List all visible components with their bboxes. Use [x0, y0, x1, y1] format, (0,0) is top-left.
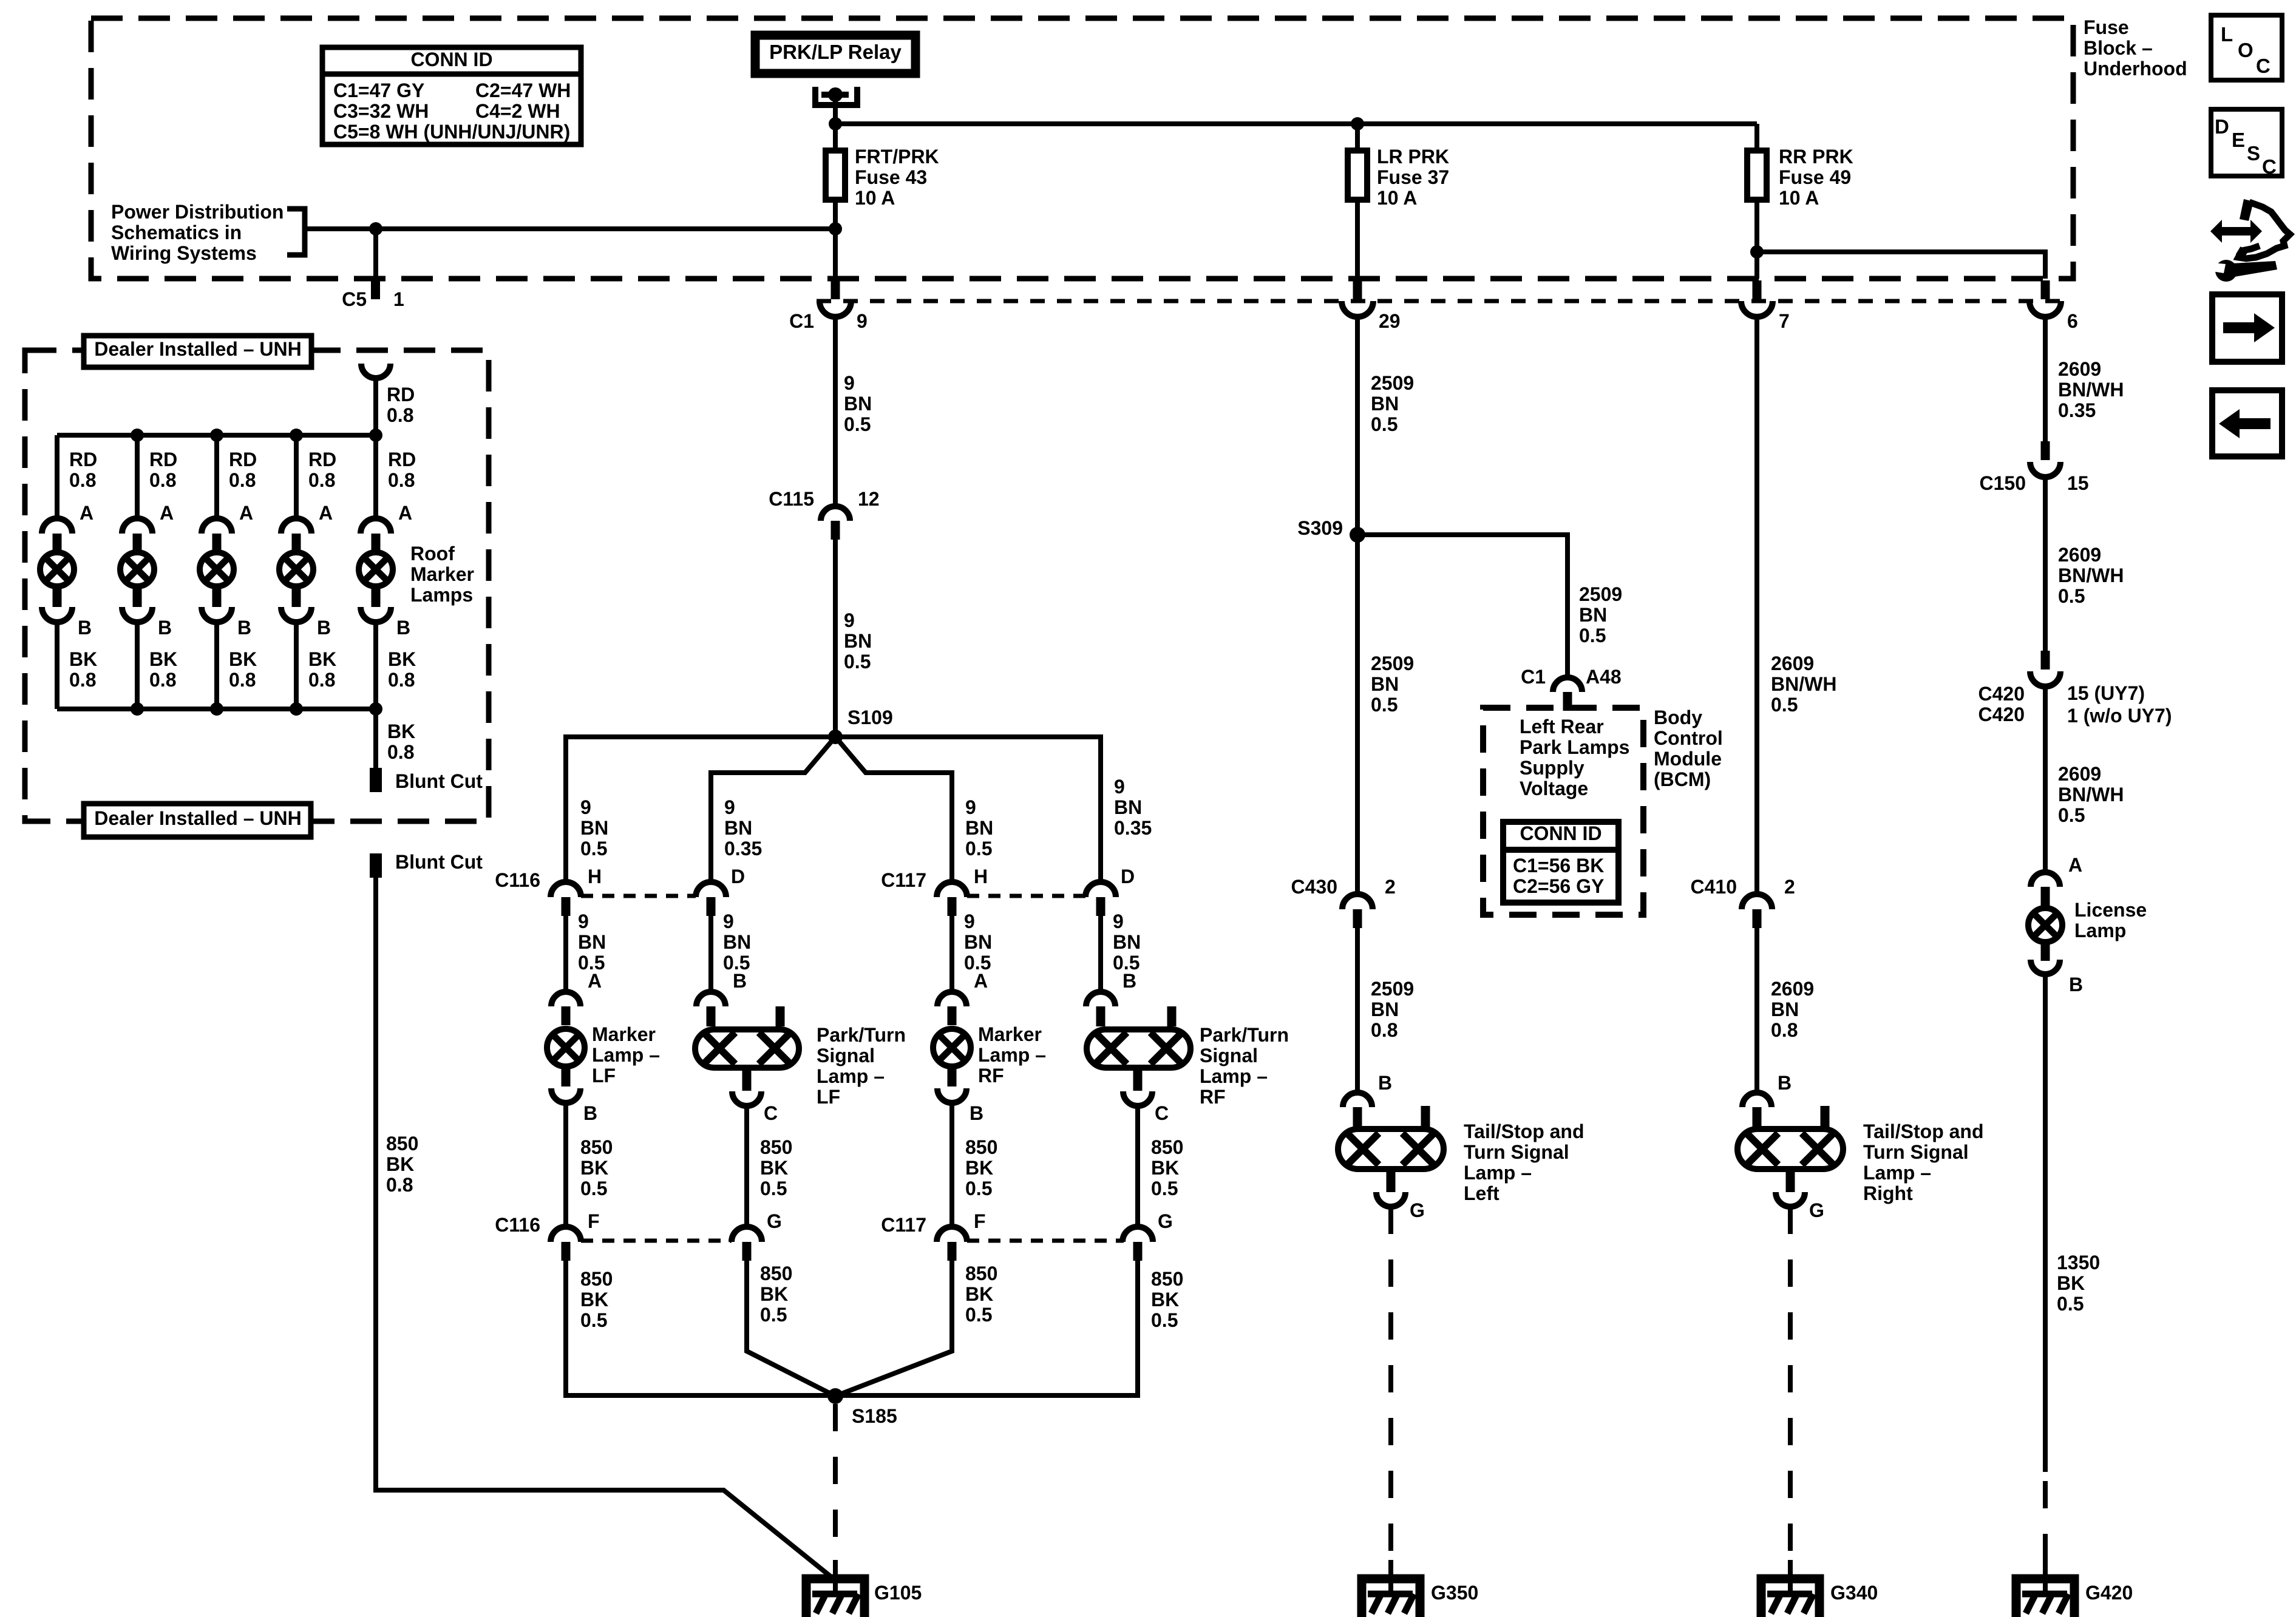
ground G350: [1362, 1560, 1478, 1617]
connector C1 pin 9: [789, 280, 868, 332]
connector C410 pin 2: [1691, 876, 1795, 928]
connector C116 pin F: [495, 1210, 599, 1261]
connector roof lamp 1 pin A: [42, 518, 72, 552]
node C5 tap: [369, 222, 382, 236]
connector C117 pin F: [881, 1210, 985, 1261]
label RD 0.8: [308, 449, 336, 491]
node roof bottom bus junction: [290, 702, 303, 716]
connector park/turn LF pin B: [696, 992, 725, 1025]
connector link C116 F-G (dashed): [581, 1239, 732, 1243]
label pin A: [398, 502, 412, 524]
node roof bus junction: [131, 429, 144, 442]
lamp Park/Turn Signal Lamp - LF: [695, 1006, 799, 1091]
svg-text:RD0.8: RD0.8: [229, 449, 257, 491]
module BCM dashed box: [1483, 708, 1643, 915]
splice S309: [1297, 517, 1365, 543]
connector roof lamp 1 pin B: [42, 607, 72, 622]
svg-text:C117: C117: [881, 1214, 926, 1236]
wire 9 BN 0.5 to lamp pin B: [708, 916, 713, 992]
label Marker Lamp - RF: [978, 1023, 1046, 1086]
svg-text:BK0.8: BK0.8: [229, 648, 257, 691]
svg-text:RD0.8: RD0.8: [388, 449, 416, 491]
connector C5 pin 1: [342, 280, 404, 310]
wire license ground (dashed): [2043, 1481, 2048, 1563]
lamp roof marker 1: [40, 552, 74, 607]
connector C116 pin H: [495, 866, 602, 916]
label 850 BK 0.5: [1151, 1136, 1183, 1199]
label BK 0.8: [388, 648, 416, 691]
lamp Marker Lamp - LF: [547, 1029, 585, 1086]
connector roof lamp 2 pin A: [122, 518, 152, 552]
lamp License Lamp: [2028, 908, 2062, 961]
svg-text:C410: C410: [1691, 876, 1737, 898]
svg-text:G420: G420: [2085, 1582, 2133, 1604]
svg-text:A: A: [2068, 854, 2082, 876]
svg-text:B: B: [1123, 970, 1136, 992]
node RR branch junction: [1750, 245, 1764, 259]
label 9 BN 0.5: [723, 910, 751, 974]
wire roof lamp top bus: [57, 433, 376, 438]
svg-text:S185: S185: [852, 1405, 897, 1427]
label Power Distribution: [111, 201, 305, 264]
wire 2609 BN/WH 0.35 (pin6 to C150): [2043, 317, 2048, 443]
connector C116 pin D: [696, 866, 745, 916]
wire BK 0.8 roof lamp 4: [294, 622, 299, 709]
svg-text:B: B: [583, 1102, 597, 1124]
wire 850 BK 0.5 (park LF): [744, 1106, 749, 1227]
label 2509 BN 0.5: [1579, 583, 1622, 646]
connector tail lamp left pin G: [1376, 1192, 1425, 1221]
svg-text:2: 2: [1784, 876, 1795, 898]
label 9 BN 0.5: [578, 910, 606, 974]
node relay bus junction: [829, 117, 842, 131]
icon adjust (arrows and wrench): [2210, 199, 2290, 282]
svg-text:H: H: [588, 866, 602, 887]
connector tail lamp left pin B: [1343, 1093, 1372, 1126]
label 9 BN 0.5: [844, 372, 872, 435]
svg-text:B: B: [1778, 1072, 1792, 1094]
svg-text:CONN ID: CONN ID: [410, 49, 492, 70]
svg-text:A: A: [160, 502, 174, 524]
connector C117 pin D: [1085, 866, 1135, 916]
wire BK 0.8 roof lamp 2: [135, 622, 140, 709]
svg-text:C420C420: C420C420: [1978, 683, 2025, 725]
connector tail lamp right pin B: [1742, 1093, 1771, 1126]
svg-text:B: B: [1378, 1072, 1392, 1094]
svg-text:RD0.8: RD0.8: [69, 449, 97, 491]
connector marker LF pin B: [551, 1088, 597, 1124]
label 850 BK 0.5: [965, 1136, 997, 1199]
wire 9 BN 0.5 to lamp pin A: [949, 916, 954, 992]
connector license lamp pin B: [2031, 960, 2083, 995]
svg-text:RD0.8: RD0.8: [149, 449, 177, 491]
wire BK 0.8 roof lamp 1: [55, 622, 59, 709]
svg-text:L: L: [2221, 23, 2233, 46]
connector park/turn LF pin C: [732, 1091, 778, 1124]
label 2509 BN 0.8: [1371, 978, 1414, 1041]
label pin B: [317, 617, 331, 639]
label 2609 BN/WH 0.5: [2058, 763, 2124, 826]
svg-text:D: D: [1121, 866, 1135, 887]
label BK 0.8: [149, 648, 177, 691]
svg-text:C: C: [2262, 155, 2277, 178]
wire RD 0.8 roof lamp 4: [294, 435, 299, 519]
wire RR PRK drop: [1754, 124, 1759, 147]
connector roof lamp 4 pin B: [281, 607, 311, 622]
label box Dealer Installed - UNH (bottom): [84, 804, 311, 837]
svg-text:C115: C115: [769, 488, 814, 510]
svg-text:G340: G340: [1830, 1582, 1878, 1604]
label 9 BN 0.35: [1114, 776, 1152, 839]
label 850 BK 0.8: [386, 1133, 418, 1196]
lamp roof marker 2: [120, 552, 154, 607]
label pin B: [78, 617, 92, 639]
label 2609 BN/WH 0.5: [1771, 653, 1836, 716]
svg-text:Dealer Installed – UNH: Dealer Installed – UNH: [94, 338, 301, 360]
connector C430 pin 2: [1291, 876, 1396, 928]
connector park/turn RF pin C: [1123, 1091, 1169, 1124]
label pin A: [2068, 854, 2082, 876]
label 9 BN 0.5: [964, 910, 992, 974]
label 850 BK 0.5: [965, 1263, 997, 1326]
wire S109 to C117-D: [835, 737, 1101, 882]
wire S109 to C116-D: [711, 737, 835, 882]
icon DESC box: [2211, 109, 2282, 178]
label pin A: [588, 970, 602, 992]
wire 850 BK 0.5 (C117-G to S185): [835, 1261, 1138, 1395]
label Left Rear Park Lamps Supply Voltage: [1520, 716, 1629, 799]
svg-text:RD0.8: RD0.8: [308, 449, 336, 491]
label BK 0.8: [308, 648, 336, 691]
label 850 BK 0.5: [760, 1136, 792, 1199]
svg-text:G: G: [1158, 1210, 1173, 1232]
fuse FRT/PRK Fuse 43: [826, 95, 845, 279]
label 1350 BK 0.5: [2057, 1252, 2100, 1315]
connector tail lamp right pin G: [1776, 1192, 1824, 1221]
wire power distribution feed: [305, 226, 835, 231]
svg-text:C1: C1: [1521, 666, 1546, 688]
connector BCM C1 pin A48: [1521, 666, 1622, 711]
wire RD 0.8 roof lamp 2: [135, 435, 140, 519]
lamp roof marker 3: [200, 552, 234, 607]
ground G340: [1761, 1560, 1878, 1617]
wire 850 BK 0.5 (marker LF): [563, 1103, 568, 1227]
wire RD 0.8 roof lamp 3: [214, 435, 219, 519]
node roof bottom bus junction: [369, 702, 382, 716]
label BK 0.8: [229, 648, 257, 691]
wire 9 BN 0.5 to lamp pin B: [1098, 916, 1103, 992]
svg-text:A48: A48: [1586, 666, 1622, 688]
svg-text:1: 1: [393, 288, 404, 310]
svg-text:PRK/LP Relay: PRK/LP Relay: [769, 41, 902, 63]
node roof bus junction: [369, 429, 382, 442]
svg-text:B: B: [396, 617, 410, 639]
label 2609 BN 0.8: [1771, 978, 1814, 1041]
label Roof Marker Lamps: [410, 543, 474, 606]
label pin A: [319, 502, 333, 524]
wire 2509 BN 0.5 (pin29 to S309): [1355, 317, 1360, 535]
label pin A: [239, 502, 253, 524]
svg-text:C117: C117: [881, 869, 926, 891]
connector license lamp pin A: [2031, 872, 2060, 906]
wire 850 BK 0.8 blunt cut to G105: [376, 878, 830, 1576]
wire 1350 BK 0.5: [2043, 974, 2048, 1472]
fuse LR PRK Fuse 37: [1348, 124, 1367, 279]
icon previous arrow box: [2212, 390, 2282, 456]
node roof bus junction: [290, 429, 303, 442]
svg-text:S309: S309: [1297, 517, 1343, 539]
lamp Tail/Stop and Turn Signal Lamp - Left: [1338, 1106, 1444, 1192]
lamp roof marker 5: [359, 552, 393, 607]
svg-text:7: 7: [1779, 310, 1790, 332]
svg-text:D: D: [2215, 115, 2229, 138]
label 9 BN 0.5: [580, 796, 608, 859]
wire 2609 BN/WH 0.5 (pin7 to C410): [1754, 317, 1759, 894]
connector link C117 H-D (dashed): [967, 894, 1085, 898]
label RD 0.8: [388, 449, 416, 491]
connector C117 pin G: [1123, 1210, 1173, 1261]
label 9 BN 0.35: [724, 796, 762, 859]
svg-text:A: A: [398, 502, 412, 524]
connector link C116 H-D (dashed): [581, 894, 696, 898]
wire BK 0.8 to blunt cut: [373, 709, 378, 768]
svg-text:Blunt Cut: Blunt Cut: [395, 851, 483, 873]
connector roof lamp 5 pin A: [361, 518, 391, 552]
svg-text:Blunt Cut: Blunt Cut: [395, 770, 483, 792]
blunt cut (dealer box): [370, 768, 483, 792]
svg-text:G350: G350: [1431, 1582, 1478, 1604]
wire tail left ground (dashed): [1388, 1207, 1393, 1563]
wire S185 to G105 (dashed): [833, 1404, 838, 1563]
fuse RR PRK Fuse 49: [1747, 151, 1767, 279]
svg-text:CONN ID: CONN ID: [1520, 822, 1601, 844]
svg-text:B: B: [317, 617, 331, 639]
label 850 BK 0.5: [1151, 1268, 1183, 1331]
svg-text:1 (w/o UY7): 1 (w/o UY7): [2067, 705, 2172, 727]
label BK 0.8: [387, 720, 415, 763]
ground G105: [806, 1560, 922, 1617]
node roof bottom bus junction: [210, 702, 223, 716]
wire roof lamp bottom bus: [57, 707, 376, 711]
svg-text:B: B: [2069, 974, 2083, 995]
dealer installed dashed box: [25, 350, 489, 821]
svg-text:F: F: [974, 1210, 986, 1232]
svg-text:C1: C1: [789, 310, 814, 332]
connector C116 pin G: [732, 1210, 782, 1261]
svg-text:BK0.8: BK0.8: [69, 648, 97, 691]
svg-text:2: 2: [1385, 876, 1396, 898]
wire RR branch to pin 6: [1757, 252, 2045, 279]
wire tail right ground (dashed): [1788, 1207, 1793, 1563]
wire 850 BK 0.5 (marker RF): [949, 1103, 954, 1227]
svg-text:6: 6: [2067, 310, 2078, 332]
icon LOC box: [2211, 15, 2282, 80]
connector line C1 (dotted): [817, 299, 2071, 303]
svg-text:F: F: [588, 1210, 600, 1232]
svg-text:C150: C150: [1980, 472, 2026, 494]
svg-text:C: C: [1155, 1102, 1169, 1124]
lamp roof marker 4: [279, 552, 313, 607]
wire 2609 BN/WH 0.5 (C150 to C420): [2043, 477, 2048, 653]
svg-text:B: B: [237, 617, 251, 639]
label Marker Lamp - LF: [592, 1023, 660, 1086]
ground G420: [2016, 1560, 2133, 1617]
label 850 BK 0.5: [760, 1263, 792, 1326]
svg-text:12: 12: [858, 488, 880, 510]
relay PRK/LP contact symbol: [815, 87, 857, 124]
svg-text:S: S: [2247, 142, 2260, 164]
svg-text:C5: C5: [342, 288, 367, 310]
label RR PRK Fuse 49: [1779, 146, 1853, 209]
wire 2609 BN 0.8 (C410 to lamp): [1754, 928, 1759, 1093]
wire S109 to C117-H: [835, 737, 952, 882]
label 9 BN 0.5: [844, 609, 872, 673]
label pin B: [1778, 1072, 1792, 1094]
blunt cut (harness): [370, 851, 483, 878]
label 2509 BN 0.5: [1371, 653, 1414, 716]
label pin B: [396, 617, 410, 639]
connector park/turn RF pin B: [1086, 992, 1115, 1025]
label Park/Turn Signal Lamp - LF: [817, 1024, 906, 1108]
connector dealer feed cup: [361, 364, 390, 378]
wire C5 drop: [373, 229, 378, 279]
label 850 BK 0.5: [580, 1136, 613, 1199]
connector roof lamp 3 pin A: [202, 518, 232, 552]
svg-text:G: G: [1809, 1199, 1824, 1221]
label pin A: [160, 502, 174, 524]
svg-text:B: B: [78, 617, 92, 639]
wire dealer feed: [373, 378, 378, 435]
connector C117 pin H: [881, 866, 988, 916]
fuse block underhood dashed box: [91, 18, 2073, 279]
connector roof lamp 5 pin B: [361, 607, 391, 622]
wire 9 BN 0.5 (C1-9 to C115): [833, 317, 838, 506]
label pin B: [1123, 970, 1136, 992]
label pin B: [1378, 1072, 1392, 1094]
wire 9 BN 0.5 to lamp pin A: [563, 916, 568, 992]
label 2609 BN/WH 0.5: [2058, 544, 2124, 607]
lamp Tail/Stop and Turn Signal Lamp - Right: [1737, 1106, 1843, 1192]
svg-text:BK0.8: BK0.8: [387, 720, 415, 763]
CONN ID table (BCM): [1503, 822, 1618, 903]
wire 2509 BN 0.5 (S309 to C430): [1355, 542, 1360, 894]
label box Dealer Installed - UNH (top): [84, 336, 311, 367]
connector roof lamp 4 pin A: [281, 518, 311, 552]
svg-text:E: E: [2232, 129, 2245, 151]
lamp Marker Lamp - RF: [933, 1029, 971, 1086]
connector roof lamp 2 pin B: [122, 607, 152, 622]
splice S109: [828, 707, 893, 744]
node roof bus junction: [210, 429, 223, 442]
label RD 0.8 (feed): [387, 384, 415, 426]
svg-text:O: O: [2238, 39, 2254, 61]
connector marker LF pin A: [551, 992, 580, 1025]
label 2609 BN/WH 0.35: [2058, 358, 2124, 421]
svg-text:S109: S109: [847, 707, 893, 728]
svg-text:A: A: [239, 502, 253, 524]
label FRT/PRK Fuse 43: [855, 146, 939, 209]
svg-text:C: C: [764, 1102, 778, 1124]
wire S109 to C116-H: [566, 737, 835, 882]
label RD 0.8: [69, 449, 97, 491]
label RD 0.8: [149, 449, 177, 491]
svg-text:H: H: [974, 866, 988, 887]
wire RD 0.8 roof lamp 5: [373, 435, 378, 519]
relay PRK/LP label box: [755, 35, 915, 73]
svg-text:B: B: [733, 970, 747, 992]
label Tail/Stop and Turn Signal Lamp - Right: [1863, 1120, 1984, 1204]
svg-text:Dealer Installed – UNH: Dealer Installed – UNH: [94, 807, 301, 829]
label License Lamp: [2074, 899, 2147, 941]
connector pin 7: [1741, 280, 1790, 332]
svg-text:C430: C430: [1291, 876, 1338, 898]
wire bus from relay: [835, 121, 1757, 126]
svg-text:C116: C116: [495, 869, 540, 891]
svg-text:B: B: [970, 1102, 983, 1124]
label RD 0.8: [229, 449, 257, 491]
svg-text:A: A: [80, 502, 93, 524]
svg-text:BK0.8: BK0.8: [308, 648, 336, 691]
wire 850 BK 0.5 (C117-F to S185): [835, 1261, 952, 1396]
connector C420 pin 15/1: [1978, 651, 2172, 727]
connector link C117 F-G (dashed): [967, 1239, 1124, 1243]
label 2509 BN 0.5: [1371, 372, 1414, 435]
node FRT/PRK tap: [829, 222, 842, 236]
label BK 0.8: [69, 648, 97, 691]
svg-text:G: G: [767, 1210, 782, 1232]
svg-text:C1=56 BKC2=56 GY: C1=56 BKC2=56 GY: [1513, 855, 1604, 897]
label pin B: [158, 617, 172, 639]
label Tail/Stop and Turn Signal Lamp - Left: [1464, 1120, 1584, 1204]
label Body Control Module (BCM): [1654, 707, 1723, 790]
svg-text:C2=47 WHC4=2 WH: C2=47 WHC4=2 WH: [475, 80, 571, 122]
connector C115 pin 12: [769, 488, 879, 540]
wire 9 BN 0.5 (C115 to S109): [833, 540, 838, 737]
label LR PRK Fuse 37: [1377, 146, 1449, 209]
label Park/Turn Signal Lamp - RF: [1200, 1024, 1289, 1108]
svg-text:9: 9: [857, 310, 868, 332]
svg-text:G: G: [1410, 1199, 1425, 1221]
label pin A: [80, 502, 93, 524]
svg-text:B: B: [158, 617, 172, 639]
wire BK 0.8 roof lamp 3: [214, 622, 219, 709]
svg-text:15: 15: [2067, 472, 2089, 494]
label pin B: [733, 970, 747, 992]
splice S185: [827, 1388, 897, 1427]
svg-text:A: A: [319, 502, 333, 524]
node roof bottom bus junction: [131, 702, 144, 716]
connector C150 pin 15: [1980, 441, 2089, 494]
CONN ID table (fuse block): [322, 47, 581, 144]
svg-text:A: A: [588, 970, 602, 992]
svg-text:A: A: [974, 970, 988, 992]
wire BK 0.8 roof lamp 5: [373, 622, 378, 709]
svg-text:D: D: [731, 866, 745, 887]
label 9 BN 0.5: [1113, 910, 1141, 974]
connector pin 6: [2029, 280, 2078, 332]
wire 2609 BN/WH 0.5 (C420 to lamp): [2043, 686, 2048, 872]
label 850 BK 0.5: [580, 1268, 613, 1331]
label Fuse Block - Underhood: [2084, 16, 2187, 80]
svg-text:C116: C116: [495, 1214, 540, 1236]
svg-text:RD0.8: RD0.8: [387, 384, 415, 426]
wire 850 BK 0.5 (C116-G to S185): [747, 1261, 835, 1396]
svg-text:C: C: [2256, 55, 2271, 77]
svg-text:BK0.8: BK0.8: [388, 648, 416, 691]
svg-text:G105: G105: [874, 1582, 922, 1604]
wire 2509 BN 0.8 (C430 to lamp): [1355, 928, 1360, 1093]
wire RD 0.8 roof lamp 1: [55, 435, 59, 519]
